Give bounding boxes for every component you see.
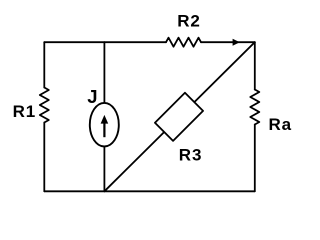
current source J (ellipse over wire) bbox=[90, 103, 119, 147]
resistor Ra bbox=[250, 90, 259, 125]
arrow inside current source J bbox=[101, 115, 109, 137]
current direction arrow on top wire bbox=[233, 39, 240, 46]
wire right top segment bbox=[254, 42, 256, 89]
wire top-left segment bbox=[44, 41, 166, 43]
wire top-right segment bbox=[201, 41, 255, 43]
wire bottom bbox=[44, 190, 255, 192]
svg-text:R2: R2 bbox=[177, 12, 201, 31]
resistor R1 bbox=[40, 88, 49, 123]
svg-text:R1: R1 bbox=[13, 102, 37, 121]
resistor R2 bbox=[166, 38, 201, 47]
svg-text:R3: R3 bbox=[179, 146, 203, 165]
resistor R3 (box over diagonal) bbox=[155, 93, 203, 141]
wire left bottom segment bbox=[43, 123, 45, 192]
svg-text:Ra: Ra bbox=[269, 115, 293, 134]
wire diagonal bbox=[104, 42, 254, 191]
svg-text:J: J bbox=[87, 86, 98, 107]
wire left top segment bbox=[43, 42, 45, 87]
wire middle vertical bbox=[103, 42, 105, 191]
wire right bottom segment bbox=[254, 125, 256, 192]
